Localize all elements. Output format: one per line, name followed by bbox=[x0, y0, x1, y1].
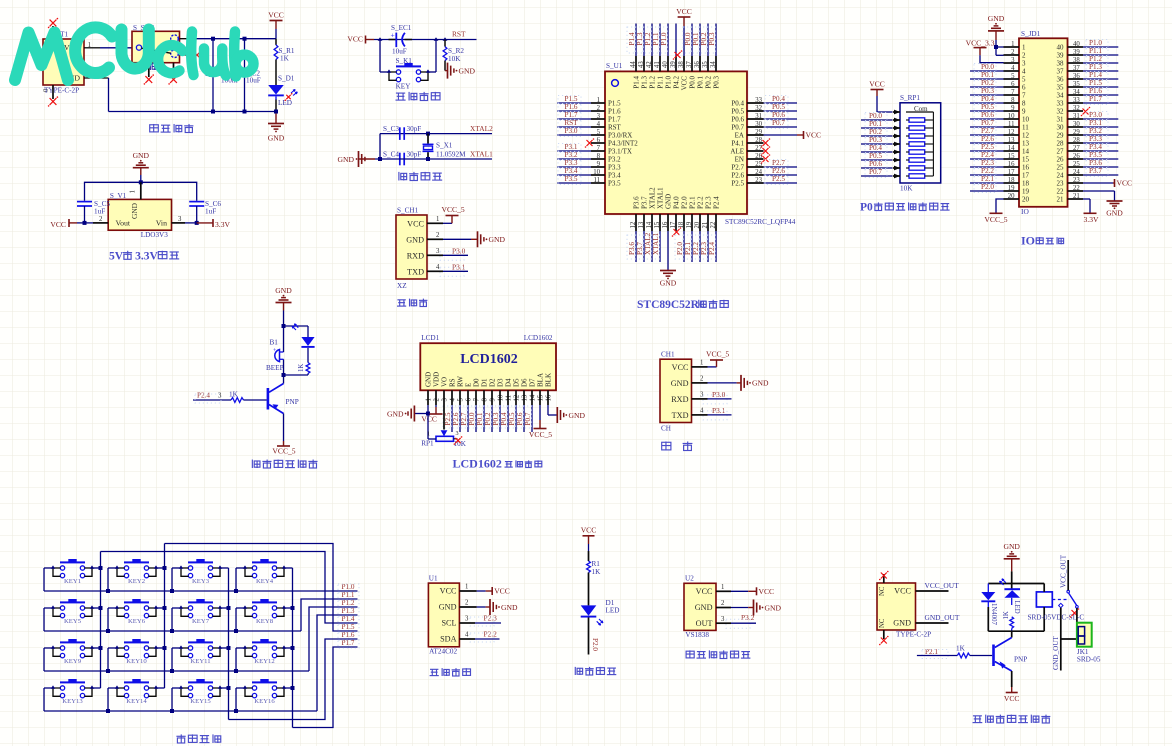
svg-text:GND: GND bbox=[1003, 542, 1020, 551]
svg-text:TYPE-C-2P: TYPE-C-2P bbox=[896, 631, 931, 639]
svg-text:2: 2 bbox=[1022, 52, 1026, 60]
svg-text:VCC_5: VCC_5 bbox=[529, 430, 552, 439]
IO pin 2 left bbox=[1004, 49, 1027, 60]
GND power port (relay) bbox=[1003, 542, 1020, 584]
svg-text:3: 3 bbox=[456, 430, 459, 437]
chip pin 33 P0.4 bbox=[731, 95, 797, 107]
svg-text:P0.1: P0.1 bbox=[696, 76, 704, 89]
IO pin 37 right bbox=[1057, 63, 1119, 75]
power top rail junction dots bbox=[211, 37, 215, 41]
svg-text:S_CH1: S_CH1 bbox=[397, 207, 419, 215]
no-ERC mark at LED bbox=[286, 95, 290, 99]
svg-text:GND: GND bbox=[569, 411, 586, 420]
wire relay bottom rail bbox=[988, 630, 1044, 632]
LCD pin 15 BLA bbox=[537, 373, 545, 405]
LCD pin 6 E bbox=[459, 383, 473, 432]
svg-text:GND_OUT: GND_OUT bbox=[1052, 635, 1060, 670]
svg-text:P3.1: P3.1 bbox=[565, 143, 578, 151]
no-ERC mark relay common bbox=[1072, 610, 1078, 616]
key KEY14 bbox=[115, 679, 158, 705]
label LCD1602 display module bbox=[453, 457, 542, 471]
svg-text:GND: GND bbox=[671, 379, 689, 388]
svg-text:KEY16: KEY16 bbox=[254, 698, 275, 705]
chip pin 12 P3.6 (bottom) bbox=[627, 196, 640, 262]
resistor network row P0.2 bbox=[861, 128, 933, 138]
svg-text:RXD: RXD bbox=[671, 395, 688, 404]
label ji-dian-qi-kong-zhi-dian-lu (relay control circuit) bbox=[973, 715, 1051, 723]
download port pin3 P3.0 bbox=[427, 247, 468, 261]
svg-text:3: 3 bbox=[1022, 60, 1026, 68]
svg-text:28: 28 bbox=[1057, 140, 1065, 148]
net GND_OUT (relay) bbox=[1052, 603, 1077, 670]
svg-text:RS: RS bbox=[449, 378, 457, 387]
IO pin 17 left bbox=[970, 167, 1030, 179]
IC U1 AT24C02 bbox=[428, 575, 459, 656]
svg-text:14: 14 bbox=[530, 394, 537, 401]
wire KEY4 right lead bbox=[284, 567, 293, 569]
svg-text:P2.2: P2.2 bbox=[696, 196, 704, 209]
svg-text:KEY11: KEY11 bbox=[190, 658, 210, 665]
IO pin 9 left bbox=[970, 103, 1026, 115]
svg-text:11: 11 bbox=[506, 395, 513, 402]
svg-text:Vin: Vin bbox=[156, 219, 167, 228]
chip pin 36 P0.1 (top) bbox=[691, 24, 704, 89]
svg-text:STC89C52RC: STC89C52RC bbox=[637, 299, 707, 311]
chip pin 38 VCC (top) bbox=[676, 7, 692, 90]
IO pin 20 left bbox=[1004, 193, 1030, 204]
svg-text:PNP: PNP bbox=[286, 398, 299, 406]
power bottom rail bbox=[109, 110, 279, 114]
svg-text:2: 2 bbox=[434, 398, 441, 402]
svg-text:RST: RST bbox=[564, 119, 578, 127]
resistor network row P0.0 bbox=[861, 112, 933, 122]
chip pin 28 P4.1 bbox=[731, 137, 770, 148]
wire KEY15 left lead bbox=[170, 688, 181, 713]
key KEY6 bbox=[115, 599, 158, 625]
svg-text:4: 4 bbox=[450, 398, 457, 402]
svg-text:P0.7: P0.7 bbox=[981, 119, 994, 127]
wire KEY2 left lead bbox=[106, 568, 117, 593]
net GND_OUT wire bbox=[916, 613, 960, 623]
U1 pin1 VCC bbox=[459, 584, 509, 596]
chip pin 40 P1.0 (top) bbox=[659, 24, 672, 89]
LCD pin 12 D5 bbox=[507, 378, 521, 432]
svg-text:P3.1/TX: P3.1/TX bbox=[608, 148, 632, 156]
IO pin 31 right bbox=[1057, 111, 1119, 123]
svg-text:P0.4: P0.4 bbox=[731, 100, 744, 108]
svg-text:1K: 1K bbox=[592, 568, 602, 576]
svg-text:GND_OUT: GND_OUT bbox=[925, 613, 960, 622]
svg-text:35: 35 bbox=[1057, 84, 1065, 92]
svg-text:P0.3: P0.3 bbox=[708, 32, 716, 45]
matrix column bus 2 bbox=[163, 544, 167, 689]
svg-text:P3.3: P3.3 bbox=[565, 159, 578, 167]
IO pin 28 right bbox=[1057, 135, 1119, 147]
chip pin 11 P3.5 bbox=[557, 175, 621, 187]
resistor R1 1K (red LED) bbox=[587, 560, 601, 605]
svg-text:GND: GND bbox=[133, 151, 150, 160]
svg-text:IO: IO bbox=[1021, 207, 1029, 216]
svg-text:P0.5: P0.5 bbox=[731, 108, 744, 116]
svg-text:3: 3 bbox=[436, 248, 440, 255]
svg-text:CH1: CH1 bbox=[661, 351, 675, 359]
svg-text:VCC: VCC bbox=[347, 35, 363, 44]
svg-text:U2: U2 bbox=[685, 575, 694, 583]
svg-text:GND: GND bbox=[275, 286, 292, 295]
download port pin2 GND bbox=[427, 231, 505, 247]
svg-text:27: 27 bbox=[1057, 148, 1065, 156]
IO pin 21 right bbox=[1057, 193, 1084, 204]
key KEY11 bbox=[179, 639, 222, 665]
svg-text:10K: 10K bbox=[900, 185, 913, 193]
svg-text:15: 15 bbox=[538, 394, 545, 401]
svg-text:P2.4: P2.4 bbox=[981, 151, 994, 159]
svg-text:11: 11 bbox=[1022, 124, 1029, 132]
IO pin 11 left bbox=[970, 119, 1029, 131]
switch bottom pin 2 with X bbox=[168, 63, 178, 85]
svg-text:3.3V: 3.3V bbox=[215, 220, 230, 229]
svg-text:4: 4 bbox=[465, 632, 469, 639]
svg-text:P1.7: P1.7 bbox=[608, 116, 621, 124]
net VCC_OUT (relay switch top) bbox=[1060, 554, 1069, 590]
svg-text:P1.6: P1.6 bbox=[1089, 87, 1102, 95]
wire KEY14 right lead bbox=[156, 687, 165, 689]
svg-text:S_X1: S_X1 bbox=[436, 142, 453, 150]
IO pin 38 right bbox=[1057, 55, 1119, 67]
svg-text:XTAL1: XTAL1 bbox=[652, 232, 660, 255]
svg-text:Vout: Vout bbox=[116, 219, 131, 228]
wire KEY10 right lead bbox=[156, 647, 165, 649]
svg-text:P1.6: P1.6 bbox=[565, 103, 578, 111]
svg-text:VCC: VCC bbox=[581, 526, 597, 535]
chip pin 15 XTAL1 (bottom) bbox=[651, 187, 664, 262]
svg-text:GND: GND bbox=[752, 379, 769, 388]
LED S_D1 bbox=[268, 75, 297, 108]
svg-text:P3.7: P3.7 bbox=[640, 196, 648, 209]
svg-text:P2.0: P2.0 bbox=[981, 183, 994, 191]
svg-text:P1.6: P1.6 bbox=[342, 631, 355, 639]
svg-text:17: 17 bbox=[1022, 172, 1030, 180]
IC S_U1 STC89C52RC body bbox=[605, 62, 796, 226]
svg-text:KEY5: KEY5 bbox=[64, 618, 82, 625]
crystal S_X1 11.0592M bbox=[423, 134, 467, 159]
svg-text:P0.1: P0.1 bbox=[869, 120, 882, 128]
svg-text:P3.4: P3.4 bbox=[608, 172, 621, 180]
label chuan-kou (serial port) bbox=[662, 441, 693, 450]
GND power port (alarm) bbox=[275, 286, 292, 326]
svg-text:NC: NC bbox=[879, 586, 886, 596]
svg-text:P3.4: P3.4 bbox=[565, 167, 578, 175]
resistor network row P0.3 bbox=[861, 136, 933, 146]
svg-text:P0.6: P0.6 bbox=[869, 160, 882, 168]
svg-text:GND: GND bbox=[1106, 209, 1123, 218]
svg-text:P0.4: P0.4 bbox=[981, 95, 994, 103]
svg-text:P3.0: P3.0 bbox=[565, 127, 578, 135]
chip pin 18 P2.0 (bottom) bbox=[675, 196, 688, 262]
chip pin 42 P1.2 (top) bbox=[643, 24, 656, 89]
svg-text:P2.2: P2.2 bbox=[981, 167, 994, 175]
svg-text:26: 26 bbox=[1057, 156, 1065, 164]
svg-text:8: 8 bbox=[482, 398, 489, 402]
svg-text:D7: D7 bbox=[529, 378, 537, 387]
svg-text:TYPE-C-2P: TYPE-C-2P bbox=[44, 87, 79, 95]
svg-text:P0.7: P0.7 bbox=[772, 119, 785, 127]
svg-text:P0.1: P0.1 bbox=[981, 71, 994, 79]
wire KEY10 left lead bbox=[106, 648, 117, 673]
connector JK1 SRD-05 bbox=[1077, 623, 1101, 664]
LCD pin 3 VO bbox=[441, 377, 449, 405]
matrix column bus 4 bbox=[291, 568, 295, 728]
chip pin 30 P0.7 bbox=[731, 119, 797, 131]
svg-text:8: 8 bbox=[1022, 100, 1026, 108]
svg-text:P1.0: P1.0 bbox=[342, 583, 355, 591]
label dian-yuan-dian-lu (power circuit) bbox=[150, 124, 194, 133]
label IO expansion port bbox=[1021, 233, 1064, 247]
svg-text:P1.7: P1.7 bbox=[1089, 95, 1102, 103]
svg-text:30pF: 30pF bbox=[407, 125, 422, 133]
wire KEY6 left lead bbox=[106, 608, 117, 633]
svg-text:VCC_3.3: VCC_3.3 bbox=[966, 39, 995, 48]
VCC power port (reset) bbox=[347, 35, 374, 44]
svg-text:P3.2: P3.2 bbox=[1089, 127, 1102, 135]
svg-text:2: 2 bbox=[465, 600, 469, 607]
LCD pin 16 BLK bbox=[545, 373, 553, 405]
svg-text:4: 4 bbox=[1022, 68, 1026, 76]
wire T1 pin1 to switch bbox=[84, 47, 132, 49]
matrix row bus 2 bbox=[44, 630, 301, 632]
svg-text:RW: RW bbox=[457, 376, 465, 387]
resistor network common vertical bbox=[932, 112, 934, 176]
wire KEY1 left lead bbox=[44, 568, 53, 591]
svg-text:1K: 1K bbox=[229, 391, 239, 399]
svg-text:P1.2: P1.2 bbox=[1089, 55, 1102, 63]
svg-text:IO: IO bbox=[1021, 233, 1035, 247]
svg-text:VCC: VCC bbox=[676, 7, 692, 16]
svg-text:P0.2: P0.2 bbox=[704, 76, 712, 89]
chip pin 34 P0.3 (top) bbox=[707, 24, 720, 89]
svg-text:4: 4 bbox=[436, 264, 440, 271]
svg-text:31: 31 bbox=[1057, 116, 1065, 124]
chip pin 41 P1.1 (top) bbox=[651, 24, 664, 89]
svg-text:AT24C02: AT24C02 bbox=[429, 648, 457, 656]
svg-text:P0.0: P0.0 bbox=[688, 76, 696, 89]
svg-text:6: 6 bbox=[1022, 84, 1026, 92]
svg-text:P0.5: P0.5 bbox=[981, 103, 994, 111]
LCD pin 5 RW bbox=[451, 376, 465, 432]
svg-text:TXD: TXD bbox=[672, 411, 689, 420]
svg-text:KEY4: KEY4 bbox=[256, 578, 274, 585]
svg-text:P3.1: P3.1 bbox=[452, 263, 466, 272]
svg-text:GND: GND bbox=[501, 603, 518, 612]
svg-text:D0: D0 bbox=[473, 378, 481, 387]
svg-text:P2.3: P2.3 bbox=[484, 614, 498, 623]
chip pin 29 EA bbox=[735, 129, 821, 140]
svg-text:P2.6: P2.6 bbox=[731, 172, 744, 180]
svg-text:KEY7: KEY7 bbox=[192, 618, 210, 625]
chip pin 35 P0.2 (top) bbox=[699, 24, 712, 89]
svg-text:P2.7: P2.7 bbox=[772, 159, 785, 167]
chip pin 6 P4.3/INT2 bbox=[585, 137, 639, 148]
svg-text:P0.3: P0.3 bbox=[712, 76, 720, 89]
IO pin 15 left bbox=[970, 151, 1030, 163]
svg-text:KEY9: KEY9 bbox=[64, 658, 82, 665]
svg-text:GND: GND bbox=[664, 194, 672, 209]
svg-text:LED: LED bbox=[606, 607, 620, 615]
svg-text:R1: R1 bbox=[592, 560, 601, 568]
svg-text:1: 1 bbox=[426, 398, 433, 401]
IO pin 34 right bbox=[1057, 87, 1119, 99]
svg-text:18: 18 bbox=[1022, 180, 1030, 188]
svg-text:P3.0: P3.0 bbox=[1089, 111, 1102, 119]
svg-text:XTAL2: XTAL2 bbox=[648, 187, 656, 209]
resistor network row P0.1 bbox=[861, 120, 933, 130]
wire relay top rail bbox=[988, 583, 1044, 585]
no-ERC mark RP1 pin3 bbox=[455, 438, 460, 443]
svg-text:KEY6: KEY6 bbox=[128, 618, 146, 625]
svg-text:P0.2: P0.2 bbox=[869, 128, 882, 136]
svg-text:P2.7: P2.7 bbox=[731, 164, 744, 172]
LCD pin 1 GND bbox=[425, 372, 433, 405]
transistor PNP (alarm) bbox=[267, 375, 299, 414]
svg-text:P1.6: P1.6 bbox=[608, 108, 621, 116]
GND power port (reset) bbox=[445, 63, 475, 79]
svg-text:KEY1: KEY1 bbox=[64, 578, 81, 585]
serial pin4 P3.1 bbox=[692, 406, 732, 420]
svg-text:P1.2: P1.2 bbox=[342, 599, 355, 607]
wire KEY12 right lead bbox=[284, 647, 293, 649]
key KEY10 bbox=[115, 639, 158, 665]
svg-text:P1.3: P1.3 bbox=[342, 607, 355, 615]
svg-text:S_RP1: S_RP1 bbox=[900, 94, 920, 102]
IO pin 10 left bbox=[970, 111, 1030, 123]
no-connect X TYPE-C top bbox=[879, 571, 889, 583]
svg-text:1K: 1K bbox=[1003, 611, 1010, 619]
svg-text:SDA: SDA bbox=[440, 635, 456, 644]
wire LED to GND bbox=[275, 96, 277, 99]
svg-text:1: 1 bbox=[700, 360, 703, 367]
VCC power port (power circuit) bbox=[268, 11, 284, 39]
svg-text:1K: 1K bbox=[298, 364, 305, 372]
svg-text:VCC: VCC bbox=[806, 131, 822, 140]
key KEY5 bbox=[51, 599, 94, 625]
resistor network S_RP1 bbox=[900, 94, 941, 193]
wire KEY14 left lead bbox=[106, 688, 117, 713]
IO pin 7 left bbox=[970, 87, 1026, 99]
svg-text:TXD: TXD bbox=[407, 267, 424, 276]
svg-text:16: 16 bbox=[546, 394, 553, 401]
key KEY12 bbox=[243, 639, 286, 665]
svg-text:2: 2 bbox=[436, 232, 440, 239]
wire net P1.3 (row4 to stub) bbox=[317, 607, 359, 711]
svg-text:P2.4: P2.4 bbox=[712, 196, 720, 209]
svg-text:D5: D5 bbox=[513, 378, 521, 387]
svg-text:14: 14 bbox=[1022, 148, 1030, 156]
svg-text:P3.2: P3.2 bbox=[565, 151, 578, 159]
svg-text:STC89C52RC_LQFP44: STC89C52RC_LQFP44 bbox=[725, 218, 796, 226]
wire KEY11 left lead bbox=[170, 648, 181, 673]
chip pin 39 P4.2 (top) bbox=[670, 24, 683, 89]
download port pin4 P3.1 bbox=[427, 263, 468, 277]
IO pin 23 right bbox=[1057, 177, 1084, 188]
IO pin 4 left bbox=[970, 63, 1026, 75]
wire KEY16 right lead bbox=[284, 687, 293, 689]
wire D1 to P2.0 bbox=[589, 618, 599, 655]
svg-text:P3.6: P3.6 bbox=[632, 196, 640, 209]
resistor 1K (relay base) bbox=[917, 645, 992, 659]
resistor S_R1 1K bbox=[274, 39, 295, 85]
svg-text:GND: GND bbox=[268, 134, 285, 143]
svg-text:VCC: VCC bbox=[268, 11, 284, 20]
svg-text:D3: D3 bbox=[497, 378, 505, 387]
svg-text:7: 7 bbox=[474, 398, 481, 402]
IO pin 36 right bbox=[1057, 71, 1119, 83]
svg-text:30: 30 bbox=[1057, 124, 1065, 132]
chip pin 37 P0.0 (top) bbox=[683, 24, 696, 89]
chip pin 4 RST bbox=[557, 119, 622, 131]
svg-text:3.3V: 3.3V bbox=[135, 250, 158, 262]
label ju-zhen-jian-pan (matrix keyboard) bbox=[176, 734, 220, 743]
matrix row bus 1 (net P1.0) bbox=[44, 583, 359, 592]
svg-text:OUT: OUT bbox=[696, 619, 713, 628]
svg-text:EN: EN bbox=[735, 156, 744, 164]
svg-text:D2: D2 bbox=[489, 378, 497, 387]
chip pin 22 P2.4 (bottom) bbox=[707, 196, 720, 262]
capacitor S_C2 10uF bbox=[237, 39, 261, 112]
svg-text:VCC_5: VCC_5 bbox=[272, 447, 295, 456]
svg-text:GND: GND bbox=[338, 155, 355, 164]
wire KEY6 right lead bbox=[156, 607, 165, 609]
serial pin2 GND bbox=[692, 375, 769, 391]
chip pin 13 P3.7 (bottom) bbox=[635, 196, 648, 262]
svg-text:VO: VO bbox=[441, 377, 449, 387]
svg-text:LDO3V3: LDO3V3 bbox=[141, 231, 169, 239]
svg-text:GND: GND bbox=[695, 603, 713, 612]
LCD pin 2 VDD bbox=[433, 372, 441, 405]
svg-text:3.3V: 3.3V bbox=[1084, 215, 1099, 224]
svg-text:P1.1: P1.1 bbox=[656, 76, 664, 89]
svg-text:P1.1: P1.1 bbox=[1089, 47, 1102, 55]
label P0 pull-up resistor circuit bbox=[860, 202, 950, 214]
chip pin 14 XTAL2 (bottom) bbox=[643, 187, 656, 262]
connector S_CH1 (download port) bbox=[396, 207, 427, 291]
svg-text:P1.3: P1.3 bbox=[640, 76, 648, 89]
svg-text:P3.0/RX: P3.0/RX bbox=[608, 132, 632, 140]
IO pin 5 left bbox=[970, 71, 1026, 83]
svg-text:3: 3 bbox=[178, 216, 182, 223]
wire KEY5 right lead bbox=[92, 607, 101, 609]
svg-text:P3.3: P3.3 bbox=[608, 164, 621, 172]
chip pin 44 P1.4 (top) bbox=[627, 24, 640, 89]
capacitor S_C3 30pF bbox=[383, 125, 421, 140]
chip pin 17 P4.0 (bottom) bbox=[670, 196, 682, 237]
svg-text:P2.0: P2.0 bbox=[591, 638, 599, 651]
serial pin1 VCC_5 bbox=[692, 350, 730, 367]
svg-text:GND: GND bbox=[489, 235, 506, 244]
VCC_5 power port (IO pin20) bbox=[984, 199, 1007, 224]
svg-text:P1.2: P1.2 bbox=[648, 76, 656, 89]
VCC power port (IO pin23) bbox=[1083, 179, 1132, 188]
LED D1 bbox=[581, 599, 620, 625]
svg-text:RP1: RP1 bbox=[421, 440, 434, 448]
svg-text:RST: RST bbox=[608, 124, 622, 132]
chip pin 43 P1.3 (top) bbox=[635, 24, 648, 89]
regulator S_V1 LDO3V3 bbox=[108, 182, 171, 239]
svg-text:P0.5: P0.5 bbox=[869, 152, 882, 160]
svg-text:U1: U1 bbox=[429, 575, 438, 583]
IO pin 13 left bbox=[970, 135, 1030, 147]
wire relay switch to JK1 bbox=[1076, 608, 1078, 629]
wire KEY7 left lead bbox=[170, 608, 181, 633]
